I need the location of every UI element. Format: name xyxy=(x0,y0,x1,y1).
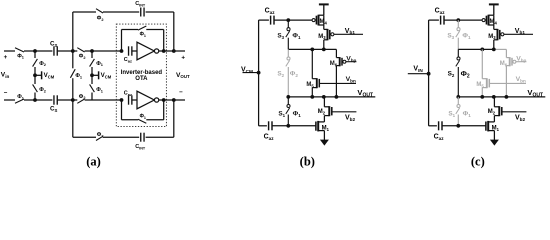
switch Phi1 C to VCM xyxy=(91,51,93,58)
svg-text:M5: M5 xyxy=(476,82,484,88)
(b) top gate wire left segment xyxy=(259,19,269,21)
switch Phi2 node A to VCM xyxy=(34,51,36,58)
svg-text:Caz: Caz xyxy=(124,91,132,97)
node B xyxy=(71,49,75,53)
(c) transistor M4 PMOS input xyxy=(482,19,485,22)
(c) capacitor Caz top xyxy=(440,16,442,25)
(b) switch S2 Phi2 middle xyxy=(287,49,289,56)
(c) bottom junction xyxy=(456,124,460,128)
(b) M5 source to VOUT rail xyxy=(311,88,313,97)
inverter bottom xyxy=(137,91,154,109)
svg-text:+: + xyxy=(4,54,8,61)
(c) M2 source to M1 drain xyxy=(493,116,495,122)
switch Phi2 top B to C xyxy=(77,48,84,52)
VCM terminal mid xyxy=(90,73,94,77)
(b) transistor M3 PMOS cascode xyxy=(324,28,328,30)
switch Phi1 shorting B-B' xyxy=(72,51,74,68)
(b) bottom gate wire to M1 xyxy=(272,125,316,127)
(c) transistor M3 PMOS cascode xyxy=(494,28,498,30)
(c) switch S1 Phi1 bottom xyxy=(457,97,459,104)
(b) M3 drain to node xyxy=(323,40,325,50)
svg-text:Φ1: Φ1 xyxy=(17,94,25,100)
capacitor Caz OTA bottom xyxy=(128,95,130,104)
svg-text:Φ2: Φ2 xyxy=(39,87,47,93)
(b) switch S1 Phi1 bottom xyxy=(287,97,289,104)
(c) M6 drain to VOUT rail xyxy=(505,66,507,97)
autozero loop bottom with switch Phi1 xyxy=(121,100,123,120)
svg-text:Φ1: Φ1 xyxy=(75,73,83,79)
(c) top gate wire to M4 xyxy=(444,19,482,21)
(c) transistor M1 NMOS input xyxy=(485,122,487,131)
output junction bottom xyxy=(172,98,176,102)
(c) ground xyxy=(493,131,495,141)
(b) node top junction xyxy=(286,18,290,22)
capacitor CS bottom xyxy=(53,95,55,104)
node D' OTA input bottom xyxy=(120,98,124,102)
(b) transistor M6 PMOS clamp xyxy=(335,49,337,57)
switch Phi2 feedback bottom xyxy=(96,136,103,140)
svg-text:M4: M4 xyxy=(490,19,498,25)
svg-text:−: − xyxy=(4,90,8,97)
(b) ground xyxy=(323,131,325,141)
(c) input terminal label xyxy=(408,73,429,75)
autozero loop top with switch Phi1 xyxy=(121,30,123,52)
svg-text:Φ2: Φ2 xyxy=(97,16,105,22)
wire C' to OTA input bottom xyxy=(85,99,122,101)
(b) transistor M1 NMOS input xyxy=(315,122,317,131)
(c) bottom gate wire left segment xyxy=(429,125,437,127)
svg-text:M4: M4 xyxy=(320,19,328,25)
(b) transistor M2 NMOS cascode xyxy=(323,97,325,107)
feedback bottom right vertical xyxy=(173,100,175,137)
svg-text:M3: M3 xyxy=(318,34,326,40)
switch Phi2 bottom B' to C' xyxy=(77,99,84,103)
feedback top wire xyxy=(73,11,96,13)
svg-text:(b): (b) xyxy=(300,155,315,169)
(b) capacitor Caz top xyxy=(270,16,272,25)
(c) bottom gate wire to M1 xyxy=(442,125,486,127)
wire node B xyxy=(57,50,77,52)
switch Phi1 top input xyxy=(15,48,24,52)
(b) left rail vertical xyxy=(258,20,260,126)
feedback bottom: tap from node B' xyxy=(72,100,74,137)
svg-text:M5: M5 xyxy=(306,82,314,88)
(b) M6 drain to VOUT rail xyxy=(335,66,337,97)
(b) M2 source to M1 drain xyxy=(323,116,325,122)
node A xyxy=(33,49,37,53)
inverter top xyxy=(137,42,154,60)
node C xyxy=(90,49,94,53)
(b) capacitor Caz bottom xyxy=(268,121,270,130)
svg-text:OTA: OTA xyxy=(135,76,148,82)
capacitor CINT bottom xyxy=(140,133,142,142)
VCM terminal left xyxy=(33,73,37,77)
svg-text:−: − xyxy=(179,89,183,96)
wire input Vin+ lead xyxy=(4,50,15,52)
(c) switch S3 Phi1 top xyxy=(457,20,459,27)
svg-text:Caz: Caz xyxy=(124,57,132,63)
(b) VOUT rail xyxy=(288,96,375,98)
wire node B' to C' xyxy=(57,99,77,101)
(c) node top junction xyxy=(456,18,460,22)
(b) transistor M4 PMOS input xyxy=(312,19,315,22)
feedback bottom wire xyxy=(73,136,96,138)
svg-text:(c): (c) xyxy=(471,155,485,169)
(b) bottom gate wire left segment xyxy=(259,125,267,127)
switch Phi1 C' to VCM xyxy=(91,75,93,84)
(b) internal node wire xyxy=(288,48,336,50)
feedback top right vertical xyxy=(173,12,175,51)
(c) VOUT rail xyxy=(458,96,545,98)
wire to node A xyxy=(24,50,52,52)
svg-text:M3: M3 xyxy=(488,34,496,40)
svg-text:Φ1: Φ1 xyxy=(96,61,104,67)
svg-text:M1: M1 xyxy=(492,125,500,131)
output junction top xyxy=(172,49,176,53)
svg-text:Φ2: Φ2 xyxy=(79,94,87,100)
(c) left rail vertical xyxy=(428,20,430,126)
(c) M5 source to VOUT rail xyxy=(481,88,483,97)
(b) input terminal label xyxy=(243,72,259,74)
(b) bottom junction xyxy=(286,124,290,128)
capacitor CINT top xyxy=(140,8,142,17)
(b) VDD supply xyxy=(323,5,325,16)
(c) internal node wire xyxy=(458,48,494,50)
(c) transistor M5 NMOS clamp xyxy=(481,49,483,78)
(c) capacitor Caz bottom xyxy=(438,121,440,130)
svg-text:M2: M2 xyxy=(318,109,326,115)
svg-text:+: + xyxy=(181,54,185,61)
svg-text:Φ1: Φ1 xyxy=(96,87,104,93)
switch Phi1 bottom input xyxy=(15,99,24,103)
(c) transistor M6 PMOS clamp xyxy=(505,49,507,57)
svg-text:(a): (a) xyxy=(86,155,101,169)
(c) top gate wire left segment xyxy=(429,19,439,21)
node A' xyxy=(33,98,37,102)
OTA dashed box xyxy=(116,24,166,127)
svg-text:Φ2: Φ2 xyxy=(79,54,87,60)
feedback top: tap from node B xyxy=(72,12,74,51)
svg-text:M2: M2 xyxy=(488,109,496,115)
capacitor Caz OTA top xyxy=(128,46,130,55)
wire input Vin- lead xyxy=(4,99,15,101)
node B' xyxy=(71,98,75,102)
capacitor CS top xyxy=(53,46,55,55)
svg-text:Φ1: Φ1 xyxy=(17,53,25,59)
wire to node A' xyxy=(24,99,52,101)
(c) switch S2 Phi2 middle xyxy=(457,49,459,56)
switch Phi2 feedback top xyxy=(96,9,103,13)
(b) top gate wire to M4 xyxy=(274,19,312,21)
(c) transistor M2 NMOS cascode xyxy=(493,97,495,107)
OTA output node top xyxy=(162,49,166,53)
(c) VDD supply xyxy=(493,5,495,16)
wire B-C to OTA input xyxy=(85,50,122,52)
switch Phi2 node A' to VCM xyxy=(34,75,36,84)
(b) switch S3 Phi1 top xyxy=(287,20,289,27)
svg-text:M1: M1 xyxy=(322,125,330,131)
svg-text:Φ2: Φ2 xyxy=(39,61,47,67)
node D OTA input top xyxy=(120,49,124,53)
(b) transistor M5 NMOS clamp xyxy=(311,49,313,78)
(c) M3 drain to node xyxy=(493,40,495,50)
OTA output node bottom xyxy=(162,98,166,102)
